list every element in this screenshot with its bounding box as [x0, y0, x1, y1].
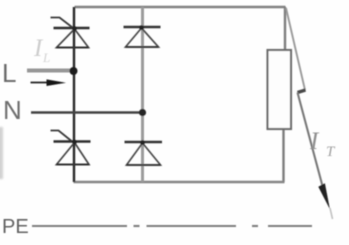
- svg-text:L: L: [2, 58, 16, 88]
- svg-text:L: L: [42, 50, 50, 65]
- svg-text:PE: PE: [2, 216, 29, 238]
- svg-text:N: N: [3, 95, 22, 125]
